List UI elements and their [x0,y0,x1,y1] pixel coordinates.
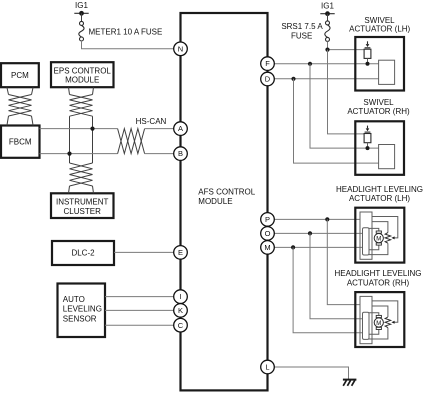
IG1 bar (right) [320,13,334,15]
twisted pair PCM-FBCM flare top [7,87,33,94]
swivel actuator (LH) assembly [355,37,404,91]
terminal C [174,318,188,332]
svg-text:MODULE: MODULE [198,197,232,206]
svg-text:O: O [265,229,271,238]
wire terminal P to actuator LH [274,218,360,220]
fuse METER1 top circle [80,21,84,25]
twisted pair cluster braid [70,163,93,186]
svg-text:LEVELING: LEVELING [63,305,102,314]
wire terminal L to ground [274,367,348,379]
wire CAN-H FBCM to braid [40,128,118,130]
svg-text:HEADLIGHT LEVELING: HEADLIGHT LEVELING [336,185,423,194]
ground bar [343,379,357,381]
wire IG1 to fuse (right) [327,14,329,21]
svg-text:AFS CONTROL: AFS CONTROL [198,188,255,197]
svg-text:CLUSTER: CLUSTER [64,207,102,216]
svg-text:F: F [265,59,270,68]
wire IG1 to fuse [81,13,83,21]
junction dot fuse branch [325,48,329,52]
svg-text:B: B [178,149,183,158]
wire terminal F to swivel LH [274,63,378,65]
terminal F [261,57,275,71]
wire O branch down to actuator RH [310,233,363,318]
twisted pair EPS braid [70,95,93,117]
wire sensor to terminal C [105,324,174,326]
svg-text:IG1: IG1 [75,1,88,10]
headlight leveling actuator (LH) assembly [355,208,404,263]
wire D branch down to swivel RH [294,79,379,163]
IG1 bar (left) [74,12,88,14]
headlight leveling actuator (RH) assembly [355,292,404,347]
fuse SRS1 body [325,25,330,38]
junction dot F branch [308,62,312,66]
svg-text:ACTUATOR (LH): ACTUATOR (LH) [349,25,410,34]
svg-text:I: I [179,292,181,301]
ground hatch strokes [343,380,355,386]
terminal N [174,42,188,56]
svg-text:SENSOR: SENSOR [63,314,97,323]
wire fuse branch down to swivel RH [328,50,365,134]
svg-text:C: C [178,321,184,330]
HS-CAN twisted pair braid [118,129,145,154]
junction dot D branch [291,77,295,81]
svg-text:N: N [178,44,183,53]
twisted pair cluster flare bottom [69,186,94,193]
EPS control module box [51,62,114,87]
terminal E [174,246,188,260]
junction CAN-H [90,127,94,131]
fuse METER1 bottom circle [80,37,84,41]
auto leveling sensor box [58,284,106,338]
twisted pair PCM-FBCM flare bottom [7,116,33,126]
wire terminal D to swivel LH [274,78,378,80]
AFS control module box [181,13,268,390]
twisted pair EPS flare top [69,87,94,94]
wire braid to terminal B [145,153,174,155]
svg-text:FBCM: FBCM [9,137,32,146]
svg-text:ACTUATOR (RH): ACTUATOR (RH) [347,107,410,116]
swivel actuator (RH) assembly [355,121,404,175]
svg-text:M: M [264,243,270,252]
FBCM box [1,126,40,158]
terminal P [261,213,275,227]
IG1 junction dot (left) [79,11,84,16]
svg-text:FUSE: FUSE [291,32,312,41]
junction CAN-L [67,152,71,156]
instrument cluster box [51,193,114,218]
wire terminal O to actuator LH [274,232,362,234]
svg-text:PCM: PCM [11,71,29,80]
svg-text:MODULE: MODULE [65,76,99,85]
fuse METER1 body [79,25,84,37]
junction dot O branch [308,231,312,235]
svg-text:ACTUATOR (RH): ACTUATOR (RH) [347,279,410,288]
wire sensor to terminal I [105,296,174,298]
DLC-2 box [52,241,114,265]
terminal D [261,72,275,86]
terminal I [174,290,188,304]
fuse SRS1 bottom circle [326,37,330,41]
wire M branch down to actuator RH [293,247,362,332]
svg-text:E: E [178,248,183,257]
svg-text:HS-CAN: HS-CAN [136,117,167,126]
svg-text:METER1 10 A FUSE: METER1 10 A FUSE [89,27,163,36]
IG1 junction dot (right) [325,11,330,16]
wire DLC-2 to terminal E [114,251,174,253]
svg-text:SWIVEL: SWIVEL [364,16,395,25]
svg-text:INSTRUMENT: INSTRUMENT [56,198,109,207]
fuse SRS1 top circle [326,21,330,25]
svg-text:D: D [265,75,271,84]
wire F branch down to swivel RH [310,64,379,148]
wire fuse to swivel LH feed [328,41,365,49]
svg-text:HEADLIGHT LEVELING: HEADLIGHT LEVELING [335,269,422,278]
terminal K [174,304,188,318]
svg-text:SRS1 7.5 A: SRS1 7.5 A [281,22,323,31]
wire CAN-L FBCM to braid [40,153,118,155]
svg-text:ACTUATOR (LH): ACTUATOR (LH) [349,194,410,203]
wire sensor to terminal K [105,309,174,311]
svg-text:A: A [178,124,183,133]
wire terminal M to actuator LH [274,246,362,248]
svg-text:P: P [265,215,270,224]
terminal L [261,360,275,374]
terminal A [174,122,188,136]
svg-text:DLC-2: DLC-2 [71,249,95,258]
svg-text:SWIVEL: SWIVEL [363,98,394,107]
wire P branch down to actuator RH [327,219,360,304]
wire fuse to terminal N [82,41,174,49]
svg-text:IG1: IG1 [321,1,334,10]
wire braid to terminal A [145,128,174,130]
junction dot P branch [325,217,329,221]
svg-text:K: K [178,306,183,315]
svg-text:AUTO: AUTO [63,295,85,304]
terminal O [261,227,275,241]
svg-text:EPS CONTROL: EPS CONTROL [54,66,112,75]
terminal M [261,241,275,255]
junction dot M branch [291,245,295,249]
CAN bus vertical pair [70,116,93,163]
twisted pair PCM-FBCM braid [9,95,32,117]
svg-text:L: L [265,363,269,372]
terminal B [174,147,188,161]
PCM box [1,63,39,87]
